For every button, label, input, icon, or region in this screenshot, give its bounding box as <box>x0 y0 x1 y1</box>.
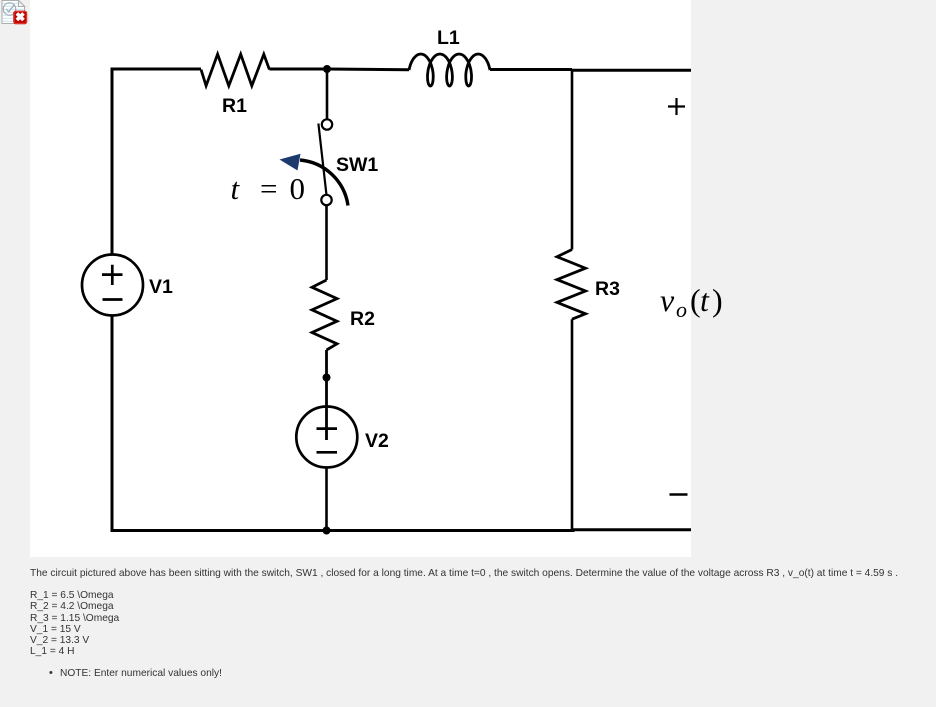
white image area <box>30 0 691 557</box>
label minus output <box>670 493 688 495</box>
switch SW1 blade <box>318 124 326 197</box>
voltage source V2 <box>296 407 357 468</box>
wire left side down to V1 <box>111 69 114 255</box>
switch SW1 bottom contact <box>321 195 331 205</box>
wire R2 to node D <box>325 350 328 440</box>
V2 minus sign <box>317 451 338 454</box>
junction node D (R2-V2) <box>323 374 331 382</box>
junction node A <box>323 65 331 73</box>
wire node A down to switch <box>326 69 329 119</box>
V1 plus sign <box>102 265 123 285</box>
wire top-left (corner to R1) <box>112 69 201 71</box>
wire switch to R2 <box>325 206 328 281</box>
svg-text:SW1: SW1 <box>336 154 378 176</box>
broken image icon <box>0 0 29 26</box>
V1 minus sign <box>103 298 123 301</box>
resistor R3 <box>557 250 586 320</box>
value label R_1 <box>30 590 119 658</box>
wire node A to L1 <box>327 68 409 72</box>
inductor L1 <box>409 54 490 86</box>
svg-text:t=0: t=0 <box>231 171 306 206</box>
wire R1 to node A <box>269 68 327 71</box>
note bullet <box>60 668 222 679</box>
svg-text:V2: V2 <box>365 430 389 452</box>
wire node B down to R3 <box>571 70 574 250</box>
switch SW1 top contact <box>322 119 332 129</box>
switch SW1 arrow head <box>280 154 301 171</box>
resistor R1 <box>201 54 269 86</box>
wire R3 to bottom wire <box>571 319 574 530</box>
svg-text:V1: V1 <box>149 276 173 298</box>
svg-text:R1: R1 <box>222 95 247 117</box>
svg-text:R3: R3 <box>595 278 620 300</box>
question text <box>30 568 898 579</box>
junction node C (bottom) <box>323 527 331 535</box>
svg-text:L1: L1 <box>437 27 460 49</box>
wire L1 to node B <box>490 68 572 71</box>
wire V1 to bottom-left corner <box>112 316 327 531</box>
voltage source V1 <box>82 255 143 316</box>
label plus output <box>668 98 685 115</box>
wire V2 to node C <box>325 468 328 531</box>
wire node B to right edge <box>572 69 691 72</box>
svg-text:vo(t): vo(t) <box>660 282 723 322</box>
V2 plus sign <box>317 427 338 430</box>
wire bottom (node C to right) <box>327 528 692 532</box>
switch SW1 opening arc <box>300 160 348 206</box>
resistor R2 <box>312 280 337 350</box>
svg-text:R2: R2 <box>350 308 375 330</box>
